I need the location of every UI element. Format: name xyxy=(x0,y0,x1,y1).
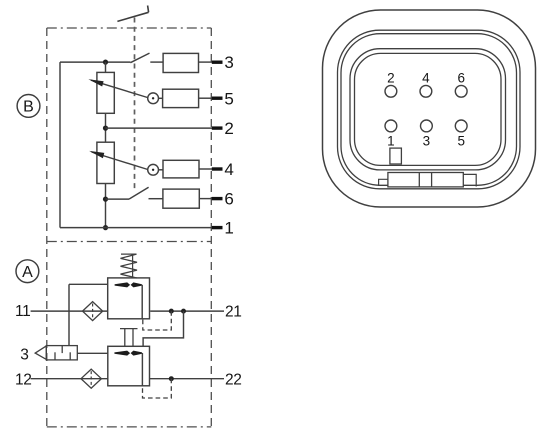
wire valve V1 exhaust feed (left port) xyxy=(69,283,108,285)
connector flange ring outer xyxy=(338,30,521,189)
wiper contact circle line 4 xyxy=(148,164,159,175)
switch S6 blade xyxy=(129,187,149,199)
mechanical actuator dashed link xyxy=(134,18,136,193)
connector housing outer contour xyxy=(323,10,536,207)
wire load 5 to terminal 5 xyxy=(199,97,212,99)
connector shroud ring inner xyxy=(355,53,502,165)
svg-text:3: 3 xyxy=(224,53,233,72)
wiper arrow of R2 xyxy=(89,151,148,170)
valve V1 seat double arrow xyxy=(115,282,142,287)
load resistor box line 6 xyxy=(163,189,199,208)
pressure control valve V2 body xyxy=(108,346,150,386)
wire line 2 to terminal 2 xyxy=(106,127,213,129)
mechanical actuator lever (top) xyxy=(117,6,148,22)
svg-text:3: 3 xyxy=(423,133,431,148)
node junction pilot 1 xyxy=(169,309,174,314)
pin 5 xyxy=(455,120,467,132)
svg-text:5: 5 xyxy=(224,89,233,108)
pin 1 xyxy=(385,120,397,132)
node junction pilot 2 xyxy=(181,309,186,314)
switch S3 blade xyxy=(130,53,149,63)
load resistor box line 3 xyxy=(163,53,198,72)
wiper contact circle line 5 xyxy=(148,93,159,104)
latch side step right xyxy=(463,174,476,186)
filter F1 (diamond) xyxy=(83,302,103,321)
terminal pin 2 xyxy=(212,126,223,129)
svg-text:21: 21 xyxy=(225,303,241,320)
wire load 4 to terminal 4 xyxy=(199,168,212,170)
pin 4 xyxy=(420,85,432,97)
valve V2 internal outlet line xyxy=(141,353,143,386)
wire valve V1 output to port 21 xyxy=(150,310,224,312)
solid pilot line from 21 to valve V2 xyxy=(143,311,183,346)
potentiometer R2 body xyxy=(97,142,114,183)
svg-text:11: 11 xyxy=(15,303,30,320)
wire node to switch S6 xyxy=(106,198,130,200)
terminal pin 5 xyxy=(212,97,223,100)
terminal pin 3 xyxy=(212,61,223,64)
wire contact to load 4 xyxy=(159,169,163,171)
svg-text:4: 4 xyxy=(224,160,233,179)
load resistor box line 4 xyxy=(163,160,199,178)
wire switch S3 fixed contact to load 3 xyxy=(150,61,163,63)
pressure control valve V1 body xyxy=(108,278,150,319)
pin 3 xyxy=(421,120,433,132)
wiper arrow of R1 xyxy=(88,79,147,97)
label A (circled) xyxy=(16,260,39,283)
wire valve V2 output to port 22 xyxy=(150,378,225,380)
svg-text:22: 22 xyxy=(225,371,241,388)
label B (circled) xyxy=(17,95,40,118)
node junction on line 1 xyxy=(103,225,108,230)
load resistor box line 5 xyxy=(163,89,199,107)
terminal pin 1 xyxy=(212,226,223,229)
dash-dot enclosure border (outer box) xyxy=(47,28,212,427)
wire R1 top xyxy=(105,62,107,72)
svg-text:6: 6 xyxy=(224,190,233,209)
svg-text:3: 3 xyxy=(20,347,29,364)
wire line 1 common xyxy=(60,227,212,229)
node junction top of resistor chain xyxy=(103,60,108,65)
pilot piston T of valve V2 xyxy=(120,329,138,347)
potentiometer R1 body xyxy=(97,72,114,113)
wire: top bus horizontal to switch 3 xyxy=(60,61,130,63)
node junction on line 6 xyxy=(103,197,108,202)
wire load 3 to terminal 3 xyxy=(199,61,213,63)
valve V2 seat double arrow xyxy=(114,351,142,356)
wire R1 bottom to node 2 xyxy=(105,113,107,142)
svg-text:12: 12 xyxy=(15,371,31,388)
wire contact to load 5 xyxy=(159,97,163,99)
connector latch bar (bottom) xyxy=(388,173,463,187)
wire load 6 to terminal 6 xyxy=(199,198,212,200)
svg-text:1: 1 xyxy=(224,219,233,238)
polarization key below pin 1 xyxy=(390,148,402,164)
wire silencer to valve V2 left port xyxy=(77,352,108,354)
spring of pressure valve V1 xyxy=(121,254,138,278)
svg-text:5: 5 xyxy=(457,133,465,148)
wire line 11 supply xyxy=(31,310,108,312)
connector shroud ring outer xyxy=(350,49,506,170)
pin 2 xyxy=(385,85,397,97)
terminal pin 4 xyxy=(212,167,223,170)
svg-text:2: 2 xyxy=(387,71,395,86)
svg-text:B: B xyxy=(23,99,34,116)
svg-text:6: 6 xyxy=(457,71,465,86)
node junction on line 2 xyxy=(103,126,108,131)
dashed pilot feedback line of V1 xyxy=(143,311,172,330)
svg-text:2: 2 xyxy=(224,119,233,138)
terminal pin 6 xyxy=(212,197,223,200)
silencer body with hatching xyxy=(46,346,77,360)
pin 6 xyxy=(455,85,467,97)
svg-text:1: 1 xyxy=(387,133,395,148)
exhaust triangle port 3 xyxy=(35,346,46,360)
dash-dot divider between section B and section A xyxy=(47,241,212,243)
valve V1 internal outlet line xyxy=(141,285,143,319)
latch side step left xyxy=(379,179,388,186)
node junction pilot V2 xyxy=(169,376,174,381)
wire: left bus vertical xyxy=(59,62,61,228)
wire line 12 supply xyxy=(31,378,108,380)
connector flange ring inner xyxy=(341,34,517,186)
svg-text:A: A xyxy=(22,264,33,281)
filter F2 (diamond) xyxy=(81,369,101,388)
wire switch S6 fixed contact to load 6 xyxy=(149,198,163,200)
wire exhaust vertical to silencer xyxy=(68,284,70,345)
svg-text:4: 4 xyxy=(422,71,430,86)
wire R2 bottom to line 1 xyxy=(105,184,107,228)
dashed pilot feedback line of V2 xyxy=(143,379,172,398)
